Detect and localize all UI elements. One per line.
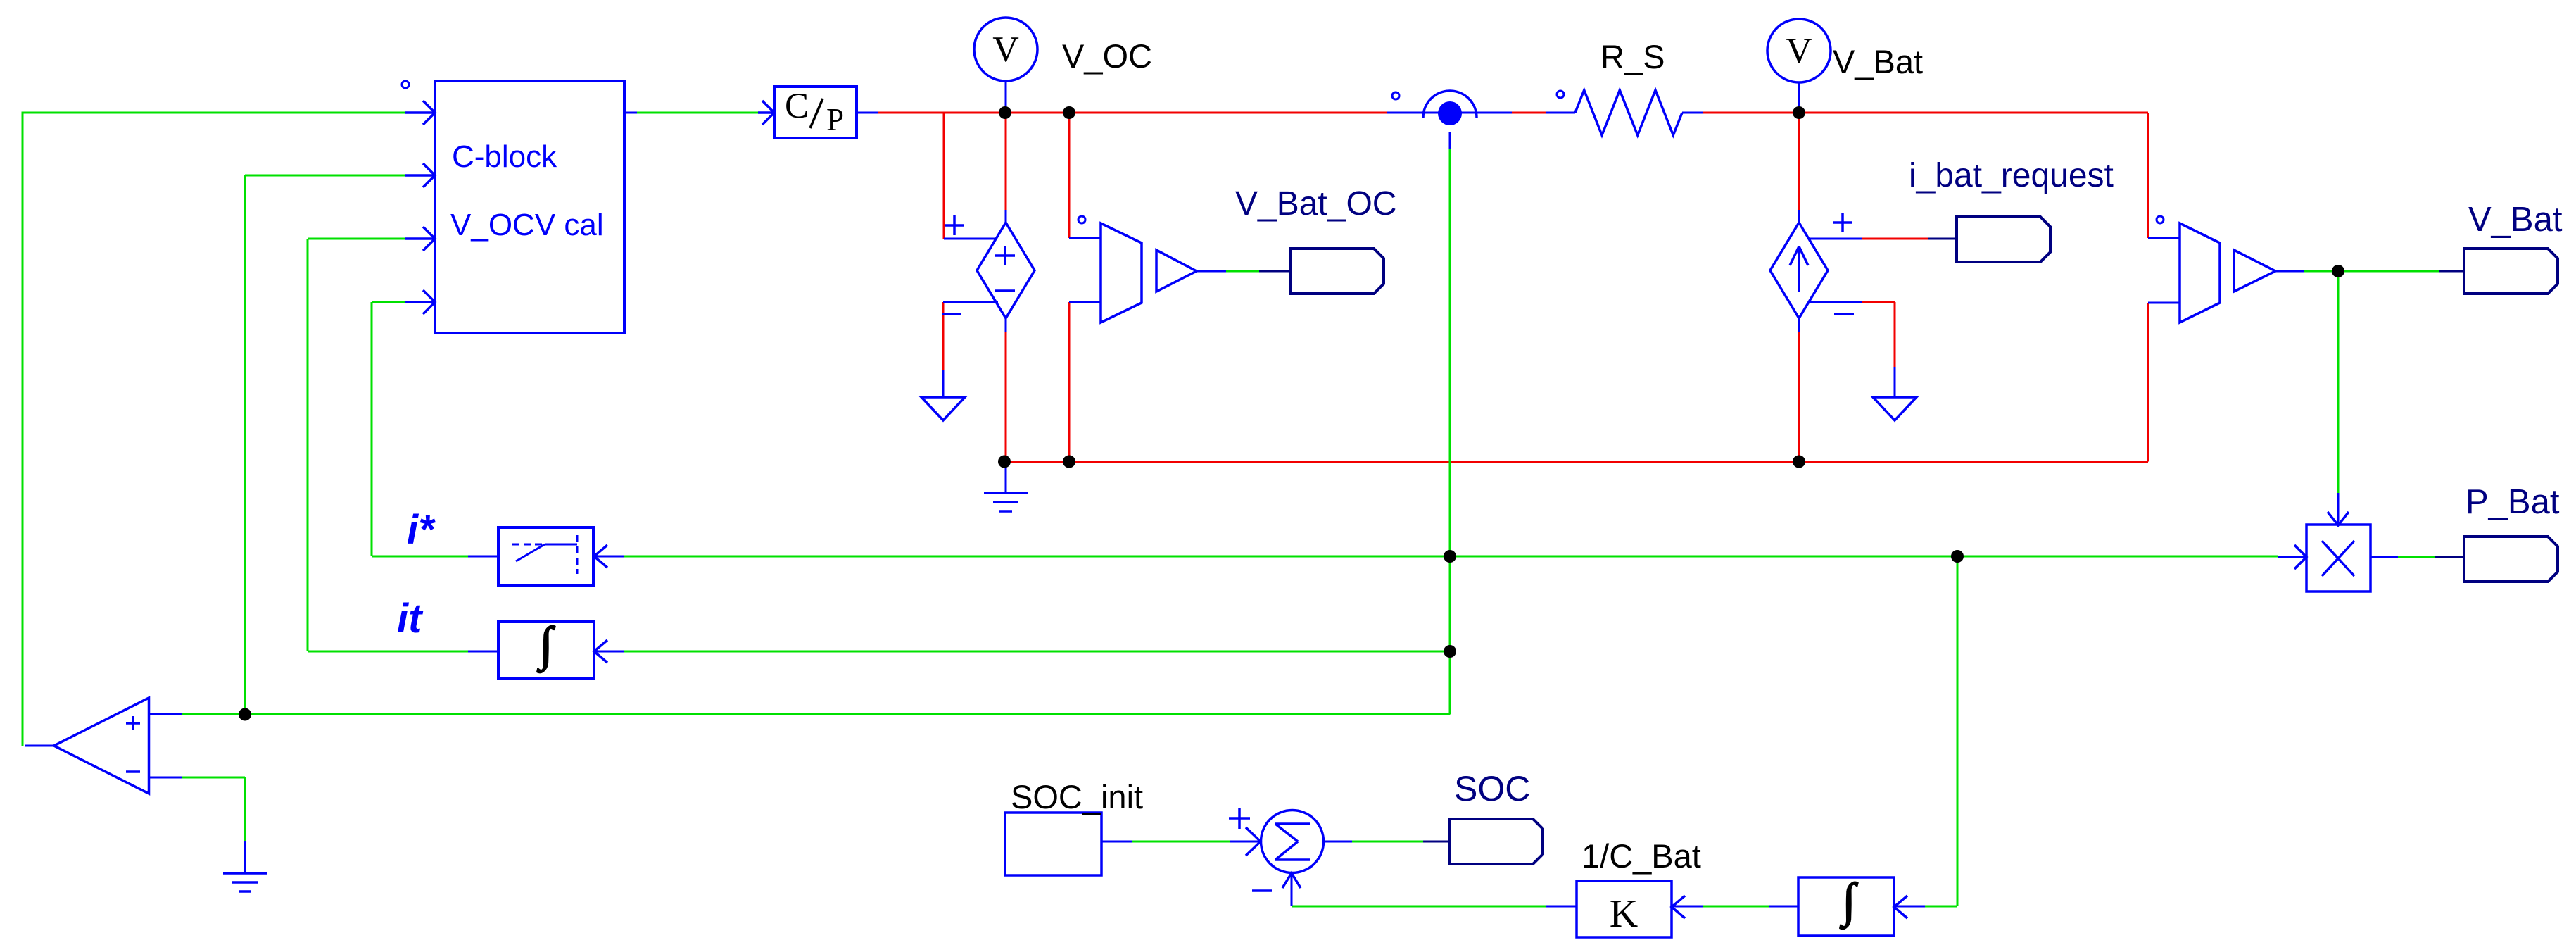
svg-text:SOC_init: SOC_init: [1011, 778, 1143, 815]
svg-text:i_bat_request: i_bat_request: [1909, 157, 2114, 194]
svg-text:C: C: [785, 87, 809, 126]
svg-text:V_OC: V_OC: [1062, 37, 1152, 75]
svg-text:R_S: R_S: [1600, 38, 1665, 75]
svg-text:∫: ∫: [537, 617, 556, 673]
svg-text:K: K: [1610, 892, 1638, 936]
svg-text:V_OCV cal: V_OCV cal: [450, 208, 604, 242]
svg-text:V_Bat: V_Bat: [2468, 201, 2563, 239]
svg-text:V: V: [992, 30, 1019, 70]
svg-text:P_Bat: P_Bat: [2465, 483, 2560, 521]
svg-text:∫: ∫: [1840, 873, 1859, 930]
svg-text:it: it: [397, 596, 424, 642]
svg-text:V_Bat_OC: V_Bat_OC: [1235, 185, 1396, 223]
svg-text:1/C_Bat: 1/C_Bat: [1581, 837, 1701, 875]
svg-text:V: V: [1786, 31, 1812, 71]
svg-text:SOC: SOC: [1454, 769, 1530, 808]
svg-text:i*: i*: [407, 507, 436, 553]
svg-text:C-block: C-block: [452, 139, 557, 174]
svg-text:P: P: [826, 102, 844, 137]
svg-text:V_Bat: V_Bat: [1833, 43, 1923, 80]
